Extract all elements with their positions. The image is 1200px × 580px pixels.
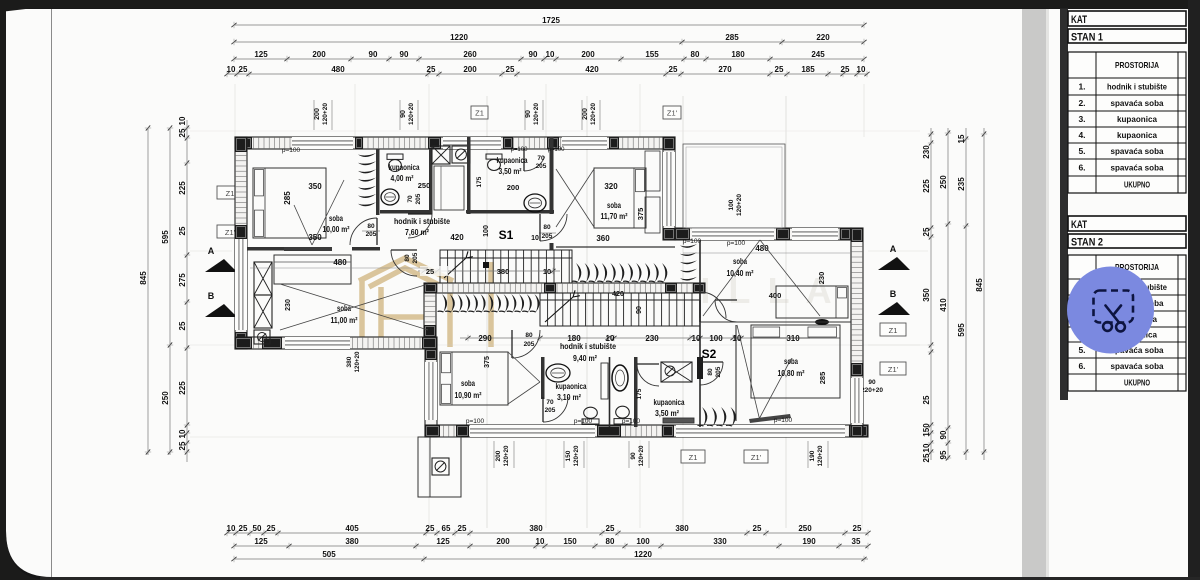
svg-text:25: 25 — [239, 65, 248, 74]
bed 10,90 — [440, 352, 540, 405]
outer wall right — [851, 228, 863, 437]
axis marker Z1 left — [217, 186, 243, 199]
svg-text:25: 25 — [178, 441, 187, 450]
svg-text:190: 190 — [809, 450, 816, 461]
svg-text:375: 375 — [484, 356, 491, 368]
svg-text:90: 90 — [400, 110, 407, 118]
svg-text:225: 225 — [178, 181, 187, 195]
svg-text:25: 25 — [606, 524, 615, 533]
svg-text:290: 290 — [478, 334, 492, 343]
outer wall left — [235, 137, 247, 349]
svg-text:90: 90 — [939, 430, 948, 439]
svg-text:25: 25 — [426, 267, 434, 276]
svg-text:35: 35 — [852, 537, 861, 546]
stair treads S2 — [540, 290, 700, 326]
svg-text:B: B — [208, 291, 215, 301]
dim chain bottom row3 — [231, 550, 868, 562]
stair dim row — [418, 270, 560, 272]
svg-text:soba: soba — [784, 356, 798, 366]
svg-text:230: 230 — [817, 272, 826, 285]
svg-text:kupaonica: kupaonica — [1117, 130, 1157, 140]
svg-text:soba: soba — [607, 200, 621, 210]
wall soba 10,80 left — [735, 325, 737, 421]
svg-text:420: 420 — [585, 65, 599, 74]
wavy C — [438, 294, 540, 312]
svg-text:175: 175 — [476, 176, 483, 187]
svg-text:25: 25 — [922, 395, 931, 404]
svg-text:200: 200 — [463, 65, 477, 74]
svg-text:p=100: p=100 — [622, 418, 641, 425]
void/terrace outline — [683, 144, 785, 228]
bottom dark bar — [40, 577, 1200, 580]
svg-text:80: 80 — [367, 223, 375, 230]
svg-text:Z1': Z1' — [888, 365, 899, 374]
svg-text:25: 25 — [178, 226, 187, 235]
svg-text:330: 330 — [713, 537, 727, 546]
svg-text:120+20: 120+20 — [736, 194, 743, 216]
wall below soba 11,70 — [556, 246, 675, 248]
axis marker Z1' right — [880, 362, 906, 375]
svg-text:80: 80 — [543, 224, 551, 231]
svg-text:90: 90 — [525, 110, 532, 118]
svg-text:285: 285 — [818, 372, 827, 385]
svg-text:285: 285 — [725, 33, 739, 42]
svg-text:380: 380 — [346, 356, 353, 367]
door leaf k4 — [408, 214, 432, 238]
outer wall top — [235, 137, 675, 149]
svg-text:70: 70 — [407, 195, 414, 203]
svg-text:Z1: Z1 — [889, 326, 898, 335]
svg-text:100: 100 — [483, 225, 490, 237]
crop icon scissors — [1103, 306, 1125, 332]
svg-text:405: 405 — [345, 524, 359, 533]
svg-text:hodnik i stubište: hodnik i stubište — [1107, 82, 1167, 92]
svg-text:480: 480 — [333, 258, 347, 267]
svg-text:250: 250 — [798, 524, 812, 533]
svg-text:4,00 m²: 4,00 m² — [391, 174, 414, 183]
svg-text:10,40 m²: 10,40 m² — [727, 268, 754, 278]
svg-text:100: 100 — [636, 537, 650, 546]
svg-text:595: 595 — [161, 230, 170, 244]
dim chain right c2 — [939, 128, 951, 461]
svg-text:hodnik i stubište: hodnik i stubište — [560, 341, 616, 351]
svg-text:230: 230 — [645, 334, 659, 343]
svg-text:25: 25 — [427, 65, 436, 74]
svg-text:80: 80 — [707, 368, 714, 376]
svg-text:420: 420 — [450, 233, 464, 242]
svg-text:595: 595 — [957, 323, 966, 337]
svg-text:spavaća soba: spavaća soba — [1111, 163, 1164, 173]
crop icon dashed rect — [1094, 291, 1134, 323]
leaf 1100 — [391, 250, 417, 276]
svg-text:kupaonica: kupaonica — [556, 382, 587, 391]
wall kup350 right — [550, 137, 554, 214]
dim chain right c4 (845) — [975, 128, 987, 460]
central wall stub — [424, 293, 436, 337]
svg-text:200: 200 — [507, 183, 520, 192]
svg-text:250: 250 — [418, 181, 431, 190]
svg-text:25: 25 — [239, 524, 248, 533]
svg-text:10: 10 — [536, 537, 545, 546]
svg-text:p=100: p=100 — [574, 418, 593, 425]
newel post — [483, 262, 489, 268]
svg-text:375: 375 — [636, 208, 645, 221]
svg-text:125: 125 — [254, 50, 268, 59]
svg-text:70: 70 — [546, 399, 554, 406]
slash box left — [254, 330, 270, 344]
svg-text:1725: 1725 — [542, 16, 560, 25]
wall soba 10,40 left — [699, 240, 701, 322]
svg-text:p=100: p=100 — [683, 238, 702, 245]
svg-text:230: 230 — [922, 145, 931, 159]
basin WC vertical — [612, 365, 628, 391]
svg-text:845: 845 — [139, 271, 148, 285]
outer wall bottom-left — [235, 337, 437, 349]
bottom Z1' box — [744, 450, 768, 463]
wall below bath zone S1 — [466, 210, 554, 214]
svg-text:285: 285 — [283, 191, 292, 205]
toilet k310 — [582, 407, 599, 424]
leaf 1040 — [700, 292, 726, 318]
svg-text:120+20: 120+20 — [322, 103, 329, 125]
svg-text:320: 320 — [604, 182, 618, 191]
svg-text:350: 350 — [922, 288, 931, 302]
svg-text:STAN 1: STAN 1 — [1071, 32, 1103, 44]
diagonals soba 11,00 — [280, 284, 428, 330]
svg-text:120+20: 120+20 — [503, 445, 510, 466]
svg-text:10: 10 — [857, 65, 866, 74]
wall kup310 left — [541, 357, 545, 399]
svg-text:185: 185 — [801, 65, 815, 74]
svg-text:25: 25 — [178, 128, 187, 137]
svg-text:150: 150 — [563, 537, 577, 546]
svg-text:10: 10 — [227, 524, 236, 533]
svg-text:25: 25 — [426, 524, 435, 533]
svg-text:120+20: 120+20 — [408, 103, 415, 125]
svg-text:11,00 m²: 11,00 m² — [331, 315, 358, 325]
bench kup350 S2 — [663, 418, 694, 423]
bottom Z1 box — [681, 450, 705, 463]
svg-text:10,00 m²: 10,00 m² — [323, 224, 350, 234]
svg-text:125: 125 — [436, 537, 450, 546]
svg-text:100: 100 — [728, 199, 735, 210]
svg-text:kupaonica: kupaonica — [1117, 114, 1157, 124]
dark blob 10,40/10,80 divider — [815, 319, 829, 325]
slanted bench 10,80 — [749, 414, 791, 423]
svg-text:200: 200 — [312, 50, 326, 59]
svg-text:270: 270 — [718, 65, 732, 74]
svg-text:90: 90 — [636, 306, 643, 314]
dim chain left (595/250) — [161, 125, 173, 455]
svg-text:p=100: p=100 — [466, 418, 485, 425]
svg-text:200: 200 — [314, 108, 321, 120]
svg-text:410: 410 — [939, 298, 948, 312]
svg-text:STAN 2: STAN 2 — [1071, 237, 1103, 249]
toilet k35 — [486, 154, 502, 170]
svg-text:5.: 5. — [1078, 146, 1085, 156]
watermark house logo — [359, 258, 491, 347]
wavy A — [572, 263, 668, 282]
dim chain top row1 (1725) — [231, 16, 866, 28]
svg-text:6.: 6. — [1078, 361, 1085, 371]
svg-text:soba: soba — [733, 256, 747, 266]
dim chain right c3 — [957, 128, 969, 460]
sliding track soba 10,00 — [284, 247, 332, 251]
svg-text:10: 10 — [531, 235, 539, 242]
outer wall connector — [663, 137, 675, 240]
bed 11,70 — [556, 168, 646, 228]
axis marker Z1 right — [880, 323, 906, 336]
basin k310 — [546, 364, 570, 382]
svg-text:120+20: 120+20 — [354, 351, 361, 372]
right dark strip — [1188, 0, 1200, 580]
svg-text:200: 200 — [496, 537, 510, 546]
svg-text:soba: soba — [461, 378, 475, 388]
svg-text:UKUPNO: UKUPNO — [1124, 378, 1150, 388]
sheet frame line left — [51, 9, 53, 577]
top black bar — [0, 0, 1200, 12]
svg-text:90: 90 — [868, 379, 876, 386]
svg-text:10: 10 — [546, 50, 555, 59]
svg-text:25: 25 — [178, 321, 187, 330]
svg-text:235: 235 — [957, 177, 966, 191]
svg-text:6.: 6. — [1078, 163, 1085, 173]
svg-text:70: 70 — [537, 155, 545, 162]
svg-text:Z1: Z1 — [475, 109, 484, 118]
wall WC mid — [609, 357, 611, 427]
outer wall bottom — [425, 425, 868, 437]
svg-text:380: 380 — [529, 524, 543, 533]
svg-text:p=100: p=100 — [282, 147, 301, 154]
svg-text:25: 25 — [853, 524, 862, 533]
svg-text:Z1': Z1' — [225, 228, 236, 237]
svg-text:A: A — [890, 244, 897, 254]
closet soba 11,70 — [645, 151, 660, 191]
svg-text:KAT: KAT — [1071, 219, 1087, 231]
wall below soba 10,00 — [247, 247, 323, 251]
leaf k310 — [543, 397, 568, 422]
svg-text:3,10 m²: 3,10 m² — [557, 393, 581, 402]
svg-text:25: 25 — [922, 227, 931, 236]
svg-text:350: 350 — [308, 182, 322, 191]
svg-text:380: 380 — [345, 537, 359, 546]
dark strip left of tables — [1060, 0, 1068, 400]
svg-text:Z1': Z1' — [751, 453, 762, 462]
dim chain top row3 — [231, 50, 866, 62]
door leaf corridor S1 — [540, 214, 567, 241]
svg-text:25: 25 — [922, 453, 931, 462]
dim chain bottom row2 — [231, 537, 870, 549]
svg-text:p=100: p=100 — [511, 147, 529, 153]
svg-text:3.: 3. — [1078, 114, 1085, 124]
svg-text:Z1: Z1 — [226, 189, 235, 198]
shower rect kup310 — [601, 363, 608, 399]
svg-text:220+20: 220+20 — [861, 387, 883, 394]
outer wall top-right — [675, 228, 851, 240]
dim chain bottom row1 — [224, 524, 870, 536]
svg-text:225: 225 — [922, 179, 931, 193]
svg-text:205: 205 — [524, 341, 535, 348]
wall soba10-bath S1 — [376, 149, 380, 215]
svg-text:p=100: p=100 — [774, 417, 793, 424]
svg-text:soba: soba — [329, 213, 343, 223]
svg-text:360: 360 — [596, 234, 610, 243]
svg-text:S1: S1 — [499, 228, 514, 242]
toilet WC — [614, 406, 631, 424]
svg-text:10: 10 — [178, 116, 187, 125]
svg-text:80: 80 — [525, 332, 533, 339]
svg-text:3,50 m²: 3,50 m² — [499, 167, 522, 176]
wall WC right — [634, 357, 638, 427]
svg-text:120+20: 120+20 — [590, 103, 597, 125]
svg-text:80: 80 — [691, 50, 700, 59]
svg-text:150: 150 — [922, 423, 931, 437]
svg-text:7,60 m²: 7,60 m² — [405, 227, 429, 237]
svg-text:480: 480 — [331, 65, 345, 74]
svg-text:220: 220 — [816, 33, 830, 42]
svg-text:Z1': Z1' — [667, 109, 678, 118]
svg-text:205: 205 — [536, 163, 547, 170]
svg-text:10: 10 — [543, 267, 551, 276]
svg-text:PROSTORIJA: PROSTORIJA — [1115, 60, 1159, 70]
svg-text:25: 25 — [669, 65, 678, 74]
svg-text:205: 205 — [366, 231, 377, 238]
svg-text:p=100: p=100 — [727, 240, 746, 247]
svg-text:kupaonica: kupaonica — [389, 163, 420, 172]
svg-text:90: 90 — [630, 452, 637, 460]
svg-text:1.: 1. — [1078, 82, 1085, 92]
svg-text:90: 90 — [400, 50, 409, 59]
dim row S2 corridor — [460, 337, 810, 339]
svg-text:200: 200 — [495, 450, 502, 461]
svg-text:150: 150 — [565, 450, 572, 461]
stair treads S1 — [440, 250, 572, 283]
basin k35 — [524, 194, 546, 212]
wardrobe x2 — [254, 295, 272, 328]
svg-text:250: 250 — [161, 391, 170, 405]
svg-text:245: 245 — [811, 50, 825, 59]
door leaf k35 — [524, 149, 545, 171]
leaf c-1090 — [512, 330, 540, 358]
dim chain right c1 — [922, 128, 934, 462]
svg-text:380: 380 — [497, 267, 510, 276]
svg-text:310: 310 — [786, 334, 800, 343]
svg-text:hodnik i stubište: hodnik i stubište — [394, 216, 450, 226]
svg-text:120+20: 120+20 — [533, 103, 540, 125]
svg-text:175: 175 — [636, 388, 643, 399]
svg-text:spavaća soba: spavaća soba — [1111, 146, 1164, 156]
axis marker Z1' top — [663, 106, 681, 119]
dim chain left detail — [178, 116, 190, 462]
svg-text:230: 230 — [285, 299, 292, 311]
svg-text:5.: 5. — [1078, 345, 1085, 355]
svg-text:25: 25 — [458, 524, 467, 533]
axis marker Z1' left — [217, 225, 243, 238]
leaf k350s2 — [637, 364, 659, 386]
svg-text:350: 350 — [308, 233, 322, 242]
svg-text:205: 205 — [715, 366, 722, 377]
svg-text:A: A — [208, 246, 215, 256]
svg-text:90: 90 — [369, 50, 378, 59]
svg-text:100: 100 — [709, 334, 723, 343]
wall S2 right zone — [699, 300, 701, 427]
dim chain left (845) — [139, 125, 151, 455]
svg-text:125: 125 — [254, 537, 268, 546]
left black strip — [0, 0, 46, 580]
appendix sym — [432, 458, 449, 475]
svg-text:p=100: p=100 — [548, 147, 566, 153]
svg-text:50: 50 — [253, 524, 262, 533]
svg-text:UKUPNO: UKUPNO — [1124, 180, 1150, 190]
svg-text:250: 250 — [939, 175, 948, 189]
svg-text:120+20: 120+20 — [573, 445, 580, 466]
central wall band — [424, 283, 705, 293]
leaf c-1080 — [715, 300, 737, 322]
svg-text:400: 400 — [769, 291, 782, 300]
outer wall S2 left — [425, 349, 437, 437]
svg-text:205: 205 — [415, 193, 422, 204]
svg-text:275: 275 — [178, 273, 187, 287]
svg-text:95: 95 — [939, 450, 948, 459]
svg-text:25: 25 — [506, 65, 515, 74]
wavy col A — [358, 153, 376, 206]
svg-text:10,80 m²: 10,80 m² — [778, 368, 805, 378]
dim chain top row4 — [224, 65, 869, 77]
leaf closet1080 — [700, 362, 723, 385]
wall soba 11,70 left — [549, 213, 551, 215]
svg-text:spavaća soba: spavaća soba — [1111, 361, 1164, 371]
svg-text:25: 25 — [753, 524, 762, 533]
svg-text:225: 225 — [178, 381, 187, 395]
axis guide lines — [190, 84, 928, 528]
svg-text:200: 200 — [582, 108, 589, 120]
svg-text:155: 155 — [645, 50, 659, 59]
svg-text:120+20: 120+20 — [817, 445, 824, 466]
svg-text:9,40 m²: 9,40 m² — [573, 353, 597, 363]
svg-text:190: 190 — [802, 537, 816, 546]
svg-text:180: 180 — [731, 50, 745, 59]
svg-text:65: 65 — [442, 524, 451, 533]
appendix box below plan — [418, 437, 461, 497]
dim chain top row2 (1220/285/220) — [231, 33, 866, 45]
svg-text:1220: 1220 — [634, 550, 652, 559]
wall closet-kup350 — [467, 137, 471, 214]
svg-text:25: 25 — [775, 65, 784, 74]
bed 10,80 — [737, 325, 840, 421]
svg-text:205: 205 — [412, 252, 419, 263]
door arc soba 10,00 leaf — [350, 218, 377, 245]
svg-text:200: 200 — [581, 50, 595, 59]
wardrobe x1 — [254, 262, 272, 295]
svg-text:25: 25 — [841, 65, 850, 74]
svg-text:260: 260 — [463, 50, 477, 59]
svg-text:80: 80 — [606, 537, 615, 546]
svg-text:15: 15 — [957, 134, 966, 143]
svg-text:420: 420 — [612, 291, 624, 298]
svg-text:1220: 1220 — [450, 33, 468, 42]
svg-text:11,70 m²: 11,70 m² — [601, 211, 628, 221]
room kupaonica 4,00 walls — [429, 149, 433, 214]
desk soba 11,00 — [274, 255, 351, 284]
svg-text:120+20: 120+20 — [638, 445, 645, 466]
wavy D — [698, 407, 736, 426]
gray band right edge of sheet — [1022, 9, 1046, 577]
toilet k4 — [387, 154, 403, 171]
shaft box 1 — [432, 146, 450, 164]
table STAN 2 — [1068, 216, 1186, 391]
table STAN 1 — [1068, 11, 1186, 193]
svg-text:10: 10 — [922, 443, 931, 452]
